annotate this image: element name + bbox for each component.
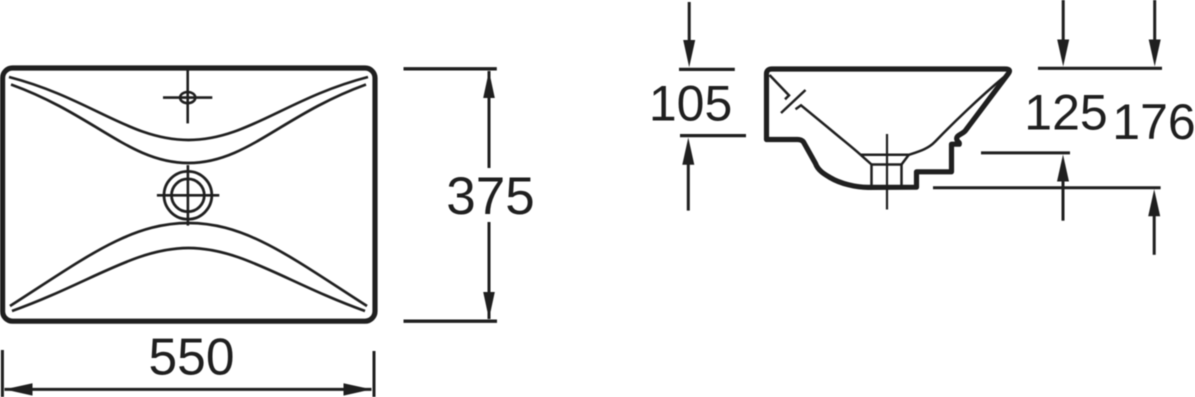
svg-text:176: 176 <box>1112 94 1195 150</box>
dim 550 line <box>5 388 372 391</box>
faucet hole horizontal centerline <box>163 96 212 99</box>
dim 125 upper leader line <box>1062 0 1065 41</box>
svg-text:375: 375 <box>446 167 534 226</box>
drain outer circle <box>164 171 212 219</box>
cross-section break slash <box>781 90 806 113</box>
dim 176 lower leader line <box>1153 214 1156 255</box>
dim 105 lower reference line <box>680 134 746 137</box>
drain funnel right diagonal <box>902 155 909 165</box>
dim 125-176 shared top reference line <box>1038 67 1162 70</box>
dim 550 left arrowhead <box>5 383 33 395</box>
drain pipe right side <box>900 165 903 186</box>
cross-section inner left diagonal segment 1 with hook <box>770 75 790 99</box>
drain horizontal centerline <box>157 194 219 197</box>
dim 125 lower up arrowhead <box>1057 155 1069 182</box>
faucet hole vertical centerline <box>186 70 189 123</box>
dim 375 down arrowhead <box>483 292 495 319</box>
basin top view inner rim upper curve <box>9 77 368 140</box>
dim 176 bottom reference line <box>933 186 1161 189</box>
basin top view inner rim lower curve <box>11 85 366 164</box>
faucet hole ellipse <box>180 92 195 103</box>
dim 105 upper down arrowhead <box>683 40 695 67</box>
dim 125 lower leader line <box>1062 179 1065 221</box>
dim 375 line upper segment <box>488 71 491 168</box>
dim 375 top extension line <box>404 67 497 70</box>
dim 375 line lower segment <box>488 222 491 319</box>
basin top view bottom band lower curve <box>12 248 365 311</box>
dim 105 upper leader line <box>688 2 691 42</box>
basin top view outline <box>3 68 375 321</box>
dim 176 upper down arrowhead <box>1149 40 1161 67</box>
dim 176 lower up arrowhead <box>1148 189 1160 216</box>
dim 550 right extension line <box>373 351 376 397</box>
cross-section inner right wall line curving to drain <box>909 77 1005 155</box>
dim 550 right arrowhead <box>344 383 372 395</box>
drain funnel waist line <box>872 163 902 166</box>
drain centerline <box>886 134 888 210</box>
dim 125 upper down arrowhead <box>1057 40 1069 67</box>
cross-section inner left diagonal segment 2 curving to drain <box>796 105 861 154</box>
drain vertical centerline <box>187 165 190 226</box>
dim 105 lower leader line <box>687 162 690 211</box>
svg-text:105: 105 <box>649 75 732 131</box>
svg-text:550: 550 <box>149 328 235 386</box>
drain funnel top line <box>861 153 909 156</box>
dim 375 up arrowhead <box>483 71 495 98</box>
drain pipe left side <box>870 165 873 186</box>
dim 375 bottom extension line <box>404 320 498 323</box>
dim 105 upper reference line <box>679 68 735 71</box>
basin cross-section outline <box>767 69 1010 187</box>
basin top view bottom band upper curve <box>10 223 367 306</box>
svg-text:125: 125 <box>1024 84 1107 140</box>
dim 105 lower up arrowhead <box>682 138 694 165</box>
drain inner circle <box>172 179 205 212</box>
dim 176 upper leader line <box>1153 0 1156 41</box>
drain funnel left diagonal <box>861 155 872 165</box>
dim 125 bottom reference line <box>981 151 1070 154</box>
dim 550 left extension line <box>1 350 4 397</box>
